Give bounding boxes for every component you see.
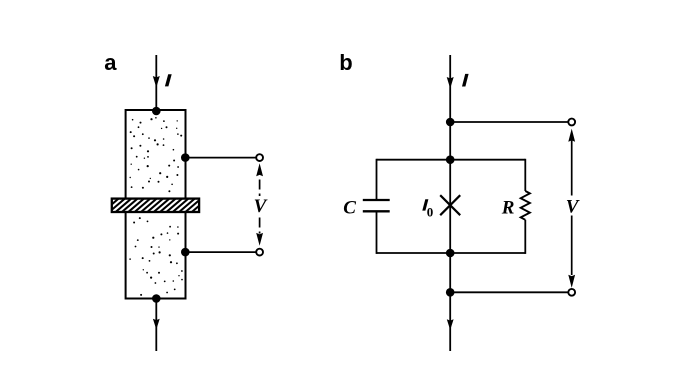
svg-text:b: b: [339, 50, 352, 75]
svg-text:R: R: [501, 198, 515, 219]
node top of electrode: [152, 107, 161, 116]
wire to lower terminal (panel b): [450, 291, 568, 293]
capacitor plate top: [363, 199, 390, 201]
up arrowhead toward upper terminal: [256, 163, 263, 176]
up arrowhead (panel b): [568, 129, 575, 142]
node lower terminal junction (panel b): [446, 288, 455, 297]
label I (panel b): [462, 74, 469, 87]
svg-text:a: a: [104, 50, 117, 75]
resistor zigzag: [521, 191, 530, 220]
arrowhead current I in (panel b): [447, 77, 454, 89]
label I0: [422, 199, 428, 210]
node top terminal junction (panel b): [446, 118, 455, 127]
capacitor plate bottom: [363, 210, 390, 212]
shaft lower (panel b): [571, 216, 573, 276]
wire to upper terminal (panel a): [185, 157, 256, 159]
arrowhead current out (panel b): [447, 319, 454, 330]
barrier bar (hatched): [100, 197, 223, 215]
voltage V measurement (panel b, solid with arrows): [568, 129, 575, 288]
lower terminal (open circle, panel a): [256, 249, 263, 256]
wire box bottom edge: [377, 252, 526, 254]
lower terminal open circle (panel b): [568, 289, 575, 296]
svg-text:0: 0: [427, 205, 434, 220]
dashed shaft lower: [259, 218, 261, 234]
wire box top edge: [377, 159, 526, 161]
Josephson junction X symbol: [440, 195, 460, 215]
wire to lower terminal (panel a): [185, 251, 256, 253]
shaft upper (panel b): [571, 141, 573, 196]
down arrowhead (panel b): [568, 275, 575, 288]
label I (panel a): [165, 74, 172, 86]
junction electrode rectangle (stippled): [126, 110, 186, 299]
arrowhead current I into junction: [153, 76, 160, 88]
down arrowhead toward lower terminal: [256, 233, 263, 246]
dashed shaft upper: [259, 180, 261, 197]
wire top lead (panel a): [155, 55, 157, 111]
node parallel-box bottom: [446, 249, 455, 258]
arrowhead current out (panel a): [153, 319, 160, 330]
voltage V measurement (panel a, dashed with arrows): [256, 163, 263, 246]
capacitor C (left branch): [363, 159, 390, 254]
node right edge lower: [181, 248, 190, 257]
upper terminal open circle (panel b): [568, 119, 575, 126]
stipple dots: [129, 117, 183, 296]
node parallel-box top: [446, 155, 455, 164]
svg-text:V: V: [254, 196, 268, 217]
node bottom of electrode: [152, 294, 161, 303]
wire left branch lower: [376, 212, 378, 254]
wire left branch upper: [376, 159, 378, 199]
wire central vertical (panel b): [449, 55, 451, 351]
svg-text:C: C: [343, 197, 356, 218]
svg-text:V: V: [566, 197, 580, 218]
wire right branch upper: [524, 159, 526, 191]
wire to upper terminal (panel b): [450, 121, 568, 123]
node right edge upper: [181, 153, 190, 162]
wire bottom lead (panel a): [155, 299, 157, 352]
wire right branch lower: [524, 220, 526, 254]
resistor R (right branch): [521, 159, 530, 254]
upper terminal (open circle, panel a): [256, 154, 263, 161]
